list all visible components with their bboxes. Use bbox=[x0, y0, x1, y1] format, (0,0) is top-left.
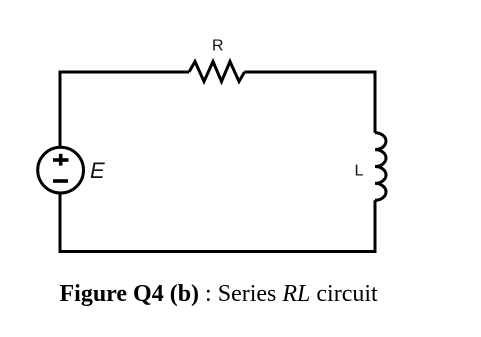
wire: left vertical (upper part) and top-left horizontal bbox=[60, 72, 189, 148]
wire: right vertical below inductor, bottom horizontal, left vertical up to source bbox=[60, 192, 375, 252]
voltage source E (circle) bbox=[38, 147, 84, 193]
wire: top-right horizontal and right vertical down to inductor bbox=[245, 72, 376, 133]
resistor R bbox=[189, 62, 245, 82]
caption: Figure Q4 (b) : Series RL circuit bbox=[60, 282, 378, 306]
svg-text:L: L bbox=[355, 163, 364, 180]
svg-text:E: E bbox=[90, 158, 105, 183]
inductor L bbox=[375, 133, 386, 201]
minus sign bbox=[53, 179, 68, 183]
svg-text:R: R bbox=[212, 38, 224, 55]
plus sign bbox=[53, 158, 69, 162]
